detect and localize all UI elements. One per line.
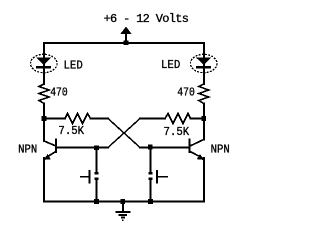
- junction dot ground tap: [121, 199, 126, 204]
- capacitor (left) top plate: [95, 172, 99, 175]
- junction dot left capacitor at ground rail: [94, 199, 99, 204]
- wire power tap lead: [125, 34, 127, 42]
- ground symbol bar 1: [115, 211, 130, 213]
- wire right capacitor top lead: [150, 147, 152, 172]
- resistor 7.5K (left) zigzag: [65, 114, 91, 124]
- LED (left) diode triangle: [36, 58, 51, 65]
- transistor NPN (right) base bar: [189, 139, 191, 154]
- wire right 7.5K to crossover: [140, 118, 165, 120]
- capacitor (left) side plate bar: [89, 170, 91, 183]
- resistor 470 (right) zigzag: [199, 84, 209, 104]
- transistor NPN (right) emitter diagonal: [190, 152, 202, 158]
- wire left capacitor top lead: [96, 148, 98, 172]
- junction dot right capacitor at ground rail: [148, 199, 153, 204]
- wire left 7.5K to crossover: [91, 118, 109, 120]
- transistor NPN (left) emitter diagonal: [46, 152, 56, 158]
- svg-text:470: 470: [50, 86, 68, 99]
- svg-text:470: 470: [177, 87, 195, 100]
- wire left collector vertical: [43, 119, 45, 142]
- svg-text:LED: LED: [64, 59, 83, 72]
- svg-text:7.5K: 7.5K: [164, 126, 190, 139]
- svg-text:LED: LED: [161, 59, 180, 72]
- power arrow (+V supply symbol): [120, 27, 131, 35]
- wire left capacitor bottom lead: [96, 180, 98, 202]
- LED (right) cathode bar: [196, 66, 211, 68]
- wire bottom ground rail: [44, 201, 204, 203]
- wire left emitter vertical: [43, 158, 45, 202]
- junction dot at power tap: [124, 41, 129, 46]
- wire right capacitor bottom lead: [150, 180, 152, 202]
- svg-text:7.5K: 7.5K: [58, 125, 84, 138]
- transistor NPN (right) emitter arrowhead: [197, 154, 205, 160]
- transistor NPN (left) base bar: [55, 139, 57, 154]
- capacitor (left) side plate lead: [80, 176, 89, 178]
- resistor 7.5K (right) zigzag: [165, 114, 191, 124]
- capacitor (right) side plate bar: [156, 170, 158, 183]
- junction dot left collector node: [42, 116, 47, 121]
- wire ground stem: [122, 202, 124, 211]
- wire left collector node to 7.5K: [44, 118, 65, 120]
- ground symbol bar 2: [118, 214, 127, 216]
- junction dot right base / capacitor tap: [148, 145, 153, 150]
- wire right base: [140, 147, 190, 149]
- capacitor (left) bottom plate: [95, 178, 99, 181]
- wire right resistor bottom to collector node: [203, 104, 205, 119]
- wire left base: [57, 147, 108, 149]
- wire left resistor bottom to collector node: [43, 104, 45, 119]
- svg-text:NPN: NPN: [211, 143, 230, 156]
- junction dot left base / capacitor tap: [94, 145, 99, 150]
- wire right emitter vertical: [203, 158, 205, 202]
- wire crossover diagonal left-top to right-base: [108, 119, 140, 148]
- capacitor (right) bottom plate: [149, 178, 153, 181]
- svg-text:+6 - 12 Volts: +6 - 12 Volts: [104, 12, 190, 26]
- wire right collector vertical: [203, 119, 205, 140]
- wire top supply rail: [44, 42, 204, 44]
- transistor NPN (left) collector diagonal: [44, 141, 56, 146]
- LED (left) envelope ellipse: [31, 54, 58, 72]
- capacitor (right) side plate lead: [158, 176, 169, 178]
- LED (right) diode triangle: [196, 58, 211, 65]
- wire right supply drop to LED/resistor chain: [203, 43, 205, 84]
- LED (right) envelope ellipse: [190, 54, 217, 72]
- capacitor (right) top plate: [149, 172, 153, 175]
- transistor NPN (right) collector diagonal: [190, 140, 204, 147]
- wire right collector node to 7.5K: [191, 118, 204, 120]
- resistor 470 (left) zigzag: [39, 84, 49, 104]
- wire crossover diagonal right-top to left-base: [108, 119, 140, 148]
- svg-text:NPN: NPN: [18, 143, 37, 156]
- ground symbol bar 3: [121, 217, 125, 219]
- junction dot right collector node: [201, 116, 206, 121]
- ground symbol dot: [122, 219, 124, 221]
- wire left supply drop to LED/resistor chain: [43, 43, 45, 84]
- LED (left) cathode bar: [36, 66, 51, 68]
- transistor NPN (left) emitter arrowhead: [43, 154, 51, 160]
